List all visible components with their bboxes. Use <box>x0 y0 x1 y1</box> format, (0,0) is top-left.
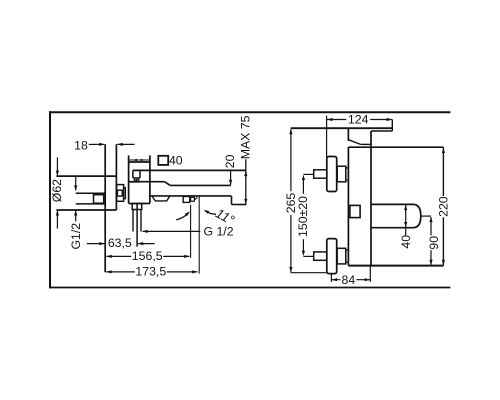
dim 150 bottom connector <box>303 255 314 257</box>
underside notch <box>152 196 170 201</box>
wall connector box <box>117 185 124 202</box>
column right edge <box>370 131 372 266</box>
union 1 square <box>337 166 346 182</box>
pipe wall right <box>140 210 142 232</box>
dim 18 text <box>74 138 88 152</box>
dim MAX75 line <box>244 159 247 204</box>
dim 84 text <box>340 273 356 287</box>
extension outlet center <box>190 205 192 258</box>
inlet pipe bottom <box>76 203 106 205</box>
svg-text:150±20: 150±20 <box>296 196 310 237</box>
dim 124 ext left <box>326 116 328 157</box>
dim 40 line <box>129 159 149 161</box>
dim 63,5 left arrow <box>87 242 105 245</box>
spout end step <box>231 196 233 205</box>
dim 150 top connector <box>303 173 313 175</box>
union 1 cap <box>346 168 349 180</box>
flange inner arrow lower <box>74 210 77 221</box>
dim 265 line <box>289 129 292 273</box>
svg-text:156,5: 156,5 <box>132 249 163 263</box>
union 2 square <box>337 248 346 264</box>
pipe axis <box>136 205 138 247</box>
svg-text:90: 90 <box>427 236 441 250</box>
dim 84 ext left <box>330 274 332 282</box>
dim 63,5 right arrow <box>138 242 155 245</box>
svg-text:84: 84 <box>342 273 356 287</box>
wall connector collar <box>124 188 126 199</box>
union 1 stem <box>314 170 327 178</box>
button plate <box>350 205 360 217</box>
dim Ø62 text <box>50 179 64 202</box>
dim 20 text <box>223 154 237 168</box>
dim 173,5 text <box>135 264 167 278</box>
svg-text:220: 220 <box>437 196 451 217</box>
handle neck <box>134 178 138 182</box>
label G1/2 wall inlet <box>69 223 83 250</box>
column left edge upper <box>347 128 349 141</box>
dim 220 line <box>442 147 445 265</box>
dim 18 right line <box>117 143 134 146</box>
dim MAX75 text <box>238 115 252 159</box>
dim 18 left line <box>89 143 105 146</box>
dim 150 text <box>296 196 310 237</box>
spout upper edge <box>129 181 165 183</box>
dim 84 line <box>332 278 370 281</box>
body left edge <box>128 155 130 203</box>
svg-text:18: 18 <box>74 138 88 152</box>
dim 124 line <box>327 118 392 121</box>
dim 150 line <box>302 175 305 256</box>
dim 156,5 line <box>106 255 189 258</box>
spout front top <box>291 127 393 129</box>
pipe collar <box>132 204 142 210</box>
union 2 disc <box>327 239 337 274</box>
dim 84 ext right <box>369 266 371 282</box>
column left edge <box>347 147 349 266</box>
spout front right face <box>391 119 393 131</box>
spout under edge <box>361 143 371 145</box>
dim 265 bottom attach <box>290 272 326 274</box>
label G 1/2 text <box>203 225 233 239</box>
dim 40 pipe arrows <box>404 205 407 236</box>
spout front lower edge <box>371 130 392 132</box>
backplate bottom <box>348 265 443 267</box>
dim 156,5 text <box>131 249 163 263</box>
wall plate edge <box>115 144 117 210</box>
dim 173,5 line <box>106 270 198 273</box>
svg-text:20: 20 <box>223 154 237 168</box>
svg-text:173,5: 173,5 <box>135 264 166 278</box>
dim 220 text <box>437 196 451 217</box>
dim 124 text <box>346 113 370 127</box>
label 11 deg <box>213 206 237 228</box>
spout underside <box>149 195 231 197</box>
body top <box>129 161 150 163</box>
flange bottom <box>56 209 116 211</box>
inlet pipe top <box>76 192 106 194</box>
svg-text:40: 40 <box>169 154 183 168</box>
dim Ø62 bottom arrow <box>56 210 59 229</box>
flange top <box>56 175 116 177</box>
wall connector nut <box>117 190 122 196</box>
body ledge <box>129 181 140 183</box>
handle stem right <box>139 170 141 178</box>
outlet detail box <box>183 197 190 203</box>
swivel arc right <box>204 210 216 214</box>
handle stem left <box>132 170 134 178</box>
dim 40 text <box>169 154 183 168</box>
bath pipe <box>371 204 421 227</box>
dim 90 text <box>427 236 441 250</box>
border frame bottom <box>49 287 450 289</box>
union 2 stem <box>314 252 327 260</box>
handle stem shoulder <box>133 177 140 179</box>
swivel arc left <box>176 211 190 220</box>
flange inner arrow upper <box>74 176 77 191</box>
dim 265 text <box>284 193 298 214</box>
svg-text:124: 124 <box>348 113 369 127</box>
dim 90 line <box>429 217 432 265</box>
spout chamfer <box>165 182 171 186</box>
svg-text:MAX 75: MAX 75 <box>238 115 252 159</box>
backplate top <box>348 146 443 148</box>
body right edge <box>149 155 151 203</box>
wall line <box>104 144 106 272</box>
border frame top <box>49 111 450 113</box>
pipe wall left <box>132 210 134 232</box>
dim 63,5 text <box>108 236 132 250</box>
svg-text:63,5: 63,5 <box>108 236 132 250</box>
spout top surface <box>170 184 231 186</box>
union 1 disc <box>327 157 337 192</box>
svg-text:Ø62: Ø62 <box>50 179 64 202</box>
outlet detail small <box>191 197 198 201</box>
inlet nut <box>94 195 104 204</box>
union 2 cap <box>346 250 349 262</box>
dim 20 arrow <box>229 170 232 185</box>
spout end bottom <box>232 204 247 206</box>
spout top line <box>133 169 246 171</box>
border frame left <box>49 111 51 288</box>
body bottom <box>129 203 150 205</box>
square symbol 40 <box>158 156 168 165</box>
svg-text:G1/2: G1/2 <box>69 223 83 250</box>
dim 90 connector <box>421 215 431 217</box>
extension spout end <box>198 196 200 274</box>
dim Ø62 top arrow <box>56 157 59 176</box>
spout under chamfer <box>349 140 361 145</box>
label G 1/2 leader <box>142 230 200 233</box>
svg-text:40: 40 <box>399 235 413 249</box>
dim 40 pipe text <box>399 235 413 249</box>
